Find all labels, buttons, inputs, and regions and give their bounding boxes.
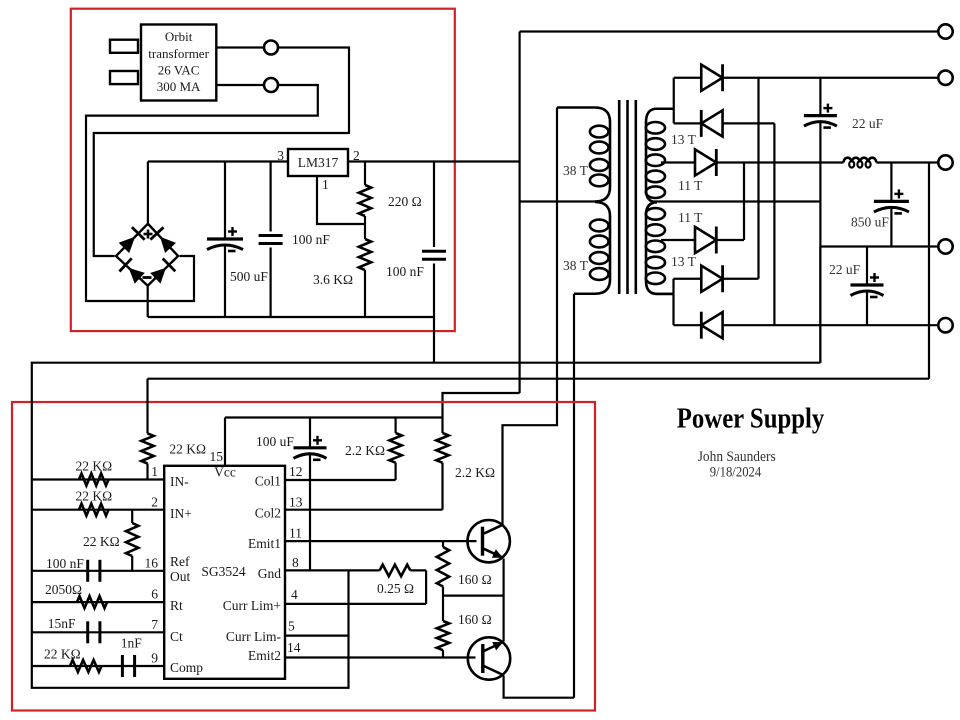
wire pin16 row [32, 570, 164, 572]
svg-text:11 T: 11 T [678, 210, 703, 225]
diode D2 [674, 122, 702, 124]
wire D2 anode to freewheel bus [723, 122, 775, 124]
svg-text:15nF: 15nF [48, 616, 76, 631]
svg-text:22 KΩ: 22 KΩ [76, 489, 113, 504]
wire T1 secondary bottom to terminal J2 [216, 84, 264, 86]
Orbit transformer box T1 [141, 25, 216, 101]
P2 loop 4 [590, 268, 609, 280]
red boundary box around control section [12, 402, 595, 711]
bridge diode bottom-to-right [150, 268, 166, 284]
svg-text:9/18/2024: 9/18/2024 [710, 465, 762, 481]
wire D4 lift vertical [743, 163, 745, 241]
P2 loop 2 [590, 236, 609, 248]
P2 loop 3 [590, 252, 609, 264]
ground bus of regulator section [148, 316, 434, 318]
wire D3 cathode rail to inductor [716, 161, 843, 163]
wire pin1 row [32, 478, 164, 480]
diode D1 [674, 77, 702, 79]
wire pin7 row [32, 631, 164, 633]
wire D2-D6 anode join vertical [773, 123, 775, 325]
bridge diode left-to-top [119, 237, 135, 253]
svg-text:5: 5 [288, 619, 295, 634]
svg-text:22 KΩ: 22 KΩ [83, 534, 120, 549]
svg-text:Vcc: Vcc [214, 465, 236, 480]
svg-text:Out: Out [170, 569, 190, 584]
diode D3 [695, 149, 716, 175]
terminal circle J6 [938, 239, 952, 253]
resistor R2 3.6Kohm [359, 239, 371, 270]
wire Q2 emitter up [503, 596, 505, 642]
svg-text:2.2 KΩ: 2.2 KΩ [345, 443, 385, 458]
svg-text:160 Ω: 160 Ω [458, 612, 492, 627]
svg-text:2.2 KΩ: 2.2 KΩ [455, 465, 495, 480]
svg-text:16: 16 [145, 556, 159, 571]
S1 loop 2 [646, 138, 665, 150]
svg-text:Rt: Rt [170, 598, 183, 613]
bridge diode right-to-top [160, 237, 176, 253]
svg-text:26 VAC: 26 VAC [158, 63, 200, 78]
bridge diode bottom-to-left [129, 268, 145, 284]
connector circle J2 [264, 78, 278, 92]
svg-text:12: 12 [289, 464, 303, 479]
wire S1 tap to D3 [661, 161, 695, 163]
terminal circle J5 [938, 155, 952, 169]
svg-text:13 T: 13 T [671, 132, 697, 147]
svg-text:38 T: 38 T [563, 163, 589, 178]
wire main rail bridge to LM317 pin3 [148, 160, 288, 162]
svg-text:Curr Lim-: Curr Lim- [226, 629, 282, 644]
svg-text:transformer: transformer [148, 46, 209, 61]
wire S1 top lead [654, 108, 674, 110]
capacitor C9 1nF [121, 655, 124, 677]
IC U1 SG3524 box [164, 466, 285, 679]
resistor R1 220ohm [359, 185, 371, 216]
svg-text:14: 14 [287, 640, 301, 655]
wire J2 to bridge AC2 (right, down, left, down, right, up) [86, 85, 318, 301]
diode D6 [674, 324, 702, 326]
terminal circle J7 [938, 318, 952, 332]
wire P2 bottom lead down to Q2 collector [573, 294, 575, 698]
capacitor C5 850uF electrolytic [890, 163, 892, 202]
svg-text:4: 4 [291, 587, 298, 602]
svg-text:850 uF: 850 uF [851, 215, 889, 230]
wire pin15 lead [224, 418, 226, 466]
resistor R8 22K feedback [146, 379, 148, 434]
resistor R4 22K [79, 504, 109, 516]
svg-text:0.25 Ω: 0.25 Ω [377, 581, 414, 596]
S2 loop 1 [646, 208, 665, 220]
red boundary box around input regulator section [71, 9, 455, 331]
terminal circle J4 [938, 71, 952, 85]
wire bridge - output down to ground bus [147, 285, 149, 317]
svg-text:160 Ω: 160 Ω [458, 572, 492, 587]
resistor R9 2.2K [395, 418, 397, 434]
wire S2 bottom lead [654, 293, 674, 295]
wire secondary center tap to common bus [652, 200, 820, 202]
svg-text:22 KΩ: 22 KΩ [44, 647, 81, 662]
svg-text:1nF: 1nF [121, 636, 143, 651]
capacitor C4 22uF electrolytic [819, 78, 821, 116]
svg-text:1: 1 [151, 464, 158, 479]
svg-text:13: 13 [289, 495, 303, 510]
T2 secondary winding S1 shell [646, 109, 674, 203]
wire D1 cathode to terminal J4 rail [723, 77, 939, 79]
svg-text:100 nF: 100 nF [46, 556, 84, 571]
svg-text:9: 9 [151, 651, 158, 666]
svg-text:2: 2 [151, 495, 158, 510]
resistor R3 22K [79, 474, 109, 486]
resistor R12 160ohm [442, 541, 444, 547]
P2 loop 1 [590, 220, 609, 232]
resistor R13 160ohm [442, 596, 444, 621]
wire LM317 pin2 to V+ node [348, 160, 520, 162]
diode D4 [695, 227, 716, 253]
T1 primary plug prong tab 2 [110, 71, 138, 84]
resistor R11 0.25ohm [380, 565, 411, 577]
bridge rectifier BR1 diamond outline [116, 224, 178, 286]
svg-text:Ref: Ref [170, 554, 190, 569]
P1 loop 4 [590, 175, 609, 187]
T1 primary plug prong tab 1 [110, 40, 138, 53]
svg-text:IN+: IN+ [170, 506, 192, 521]
wire V+ vertical node [518, 32, 520, 394]
wire D4 cathode to lift [716, 239, 744, 241]
wire D1-D5 cathode join vertical [757, 78, 759, 279]
regulator U2 LM317 box [288, 149, 348, 176]
S2 loop 4 [646, 257, 665, 269]
P1 loop 3 [590, 159, 609, 171]
capacitor C6 22uF electrolytic [866, 247, 868, 286]
wire D6 anode to terminal J7 rail [723, 324, 939, 326]
resistor R10 2.2K [441, 418, 443, 434]
connector circle J1 [264, 41, 278, 55]
S1 loop 5 [646, 186, 665, 198]
wire common return corner [819, 247, 821, 363]
capacitor C3 100nF [433, 162, 435, 248]
svg-text:22 KΩ: 22 KΩ [76, 459, 113, 474]
wire Vcc rail [225, 416, 443, 418]
svg-text:1: 1 [322, 177, 329, 192]
wire V+ drop to control Vcc [443, 393, 520, 418]
wire pin8 Gnd row [285, 569, 380, 571]
wire common rail to control section [32, 362, 821, 364]
wire pin9 row [32, 665, 164, 667]
T2 core line 3 [634, 100, 637, 294]
wire Q2 collector route [504, 676, 574, 698]
transistor Q1 [468, 520, 510, 562]
capacitor C8 15nF [86, 621, 89, 643]
wire J1 to bridge AC1 (right, down, left, down) [94, 48, 349, 257]
inductor L1 [844, 158, 877, 163]
svg-text:38 T: 38 T [563, 258, 589, 273]
left signal bus [32, 363, 349, 688]
wire P1 top lead to Q1 collector drop [503, 108, 558, 525]
svg-text:John Saunders: John Saunders [698, 449, 776, 465]
svg-text:Emit2: Emit2 [248, 648, 281, 663]
wire common rail to terminal J6 [820, 245, 938, 247]
svg-text:13 T: 13 T [671, 254, 697, 269]
svg-text:100 uF: 100 uF [256, 434, 294, 449]
svg-text:SG3524: SG3524 [201, 564, 246, 579]
wire pin11 row to Q1 base [285, 540, 477, 542]
svg-text:Col1: Col1 [255, 474, 281, 489]
svg-text:Gnd: Gnd [258, 566, 281, 581]
T2 primary winding P2 38T shell [574, 202, 610, 294]
svg-text:Curr Lim+: Curr Lim+ [223, 598, 281, 613]
wire Q1 emitter down [503, 559, 505, 596]
svg-text:100 nF: 100 nF [386, 264, 424, 279]
wire T2 primary center tap [520, 200, 601, 202]
capacitor C2 100nF [270, 162, 272, 232]
terminal circle J3 [938, 24, 952, 38]
svg-text:Emit1: Emit1 [248, 536, 281, 551]
wire pin13 row [285, 509, 443, 511]
wire feedback rail to divider [148, 378, 930, 380]
wire T1 secondary top to terminal J1 [216, 46, 264, 48]
svg-text:Power Supply: Power Supply [677, 404, 825, 435]
svg-text:22 KΩ: 22 KΩ [169, 442, 206, 457]
wire top output rail to terminal J3 [520, 30, 939, 32]
capacitor C7 100nF [86, 560, 89, 582]
svg-text:3: 3 [277, 148, 284, 163]
S2 loop 2 [646, 224, 665, 236]
svg-text:22 uF: 22 uF [829, 262, 861, 277]
wire emitter join row [443, 594, 504, 596]
bridge + polarity mark [144, 233, 153, 236]
svg-text:100 nF: 100 nF [292, 232, 330, 247]
wire S2 tap to D4 [661, 239, 695, 241]
svg-text:220 Ω: 220 Ω [388, 194, 422, 209]
svg-text:2050Ω: 2050Ω [45, 582, 82, 597]
svg-text:11 T: 11 T [678, 178, 703, 193]
S2 loop 3 [646, 241, 665, 253]
diode D5 [674, 278, 702, 280]
capacitor C10 100uF electrolytic [309, 418, 311, 448]
svg-text:15: 15 [210, 449, 224, 464]
svg-text:7: 7 [151, 617, 158, 632]
transistor Q2 [468, 637, 510, 679]
bridge - polarity mark [143, 276, 152, 279]
wire LM317 pin1 to adj divider [317, 176, 365, 224]
svg-text:6: 6 [151, 587, 158, 602]
T2 core line 1 [618, 100, 621, 294]
svg-text:IN-: IN- [170, 474, 189, 489]
capacitor C1 500uF electrolytic [224, 162, 226, 240]
resistor R5 22K vertical [131, 510, 133, 523]
T2 secondary winding S2 shell [646, 202, 674, 294]
wire pin2 row [32, 509, 164, 511]
wire node S2-bottom vertical [672, 279, 674, 325]
T2 primary winding P1 38T shell [557, 108, 610, 202]
S1 loop 4 [646, 171, 665, 183]
svg-text:300 MA: 300 MA [157, 79, 201, 94]
S1 loop 3 [646, 154, 665, 166]
wire +5V feedback vertical [928, 163, 930, 379]
svg-text:Ct: Ct [170, 629, 183, 644]
S1 loop 1 [646, 122, 665, 134]
svg-text:Col2: Col2 [255, 506, 281, 521]
wire pin12 row [285, 479, 396, 481]
resistor R7 22K [70, 660, 102, 672]
S2 loop 5 [646, 273, 665, 285]
wire D5 cathode up join [723, 278, 759, 280]
wire pin4 row with jog to R11 [285, 603, 426, 605]
wire pin6 row [32, 601, 164, 603]
svg-text:500 uF: 500 uF [230, 269, 268, 284]
P1 loop 1 [590, 126, 609, 138]
P1 loop 2 [590, 142, 609, 154]
svg-text:Comp: Comp [170, 660, 203, 675]
svg-text:22 uF: 22 uF [852, 116, 884, 131]
wire pin5 row [285, 634, 349, 636]
svg-text:11: 11 [289, 526, 302, 541]
wire bridge + output up to rail [147, 162, 149, 225]
svg-text:3.6 KΩ: 3.6 KΩ [313, 272, 353, 287]
T2 core line 2 [626, 100, 629, 294]
svg-text:2: 2 [353, 148, 360, 163]
wire pin14 row to Q2 base [285, 656, 476, 658]
wire node S1-top vertical [673, 78, 675, 124]
svg-text:8: 8 [292, 555, 299, 570]
svg-text:Orbit: Orbit [165, 29, 193, 44]
svg-text:LM317: LM317 [298, 155, 339, 170]
wire gnd to pin5 vertical [347, 570, 349, 635]
resistor R6 2050ohm [77, 596, 107, 608]
